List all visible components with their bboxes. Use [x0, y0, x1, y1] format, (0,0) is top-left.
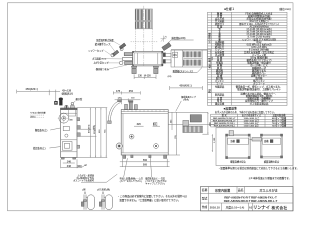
pipes body to flue — [163, 53, 171, 64]
pipe stubs below body (plan) — [131, 66, 158, 73]
plan labels left — [88, 38, 114, 71]
svg-text:浴室内設置: 浴室内設置 — [215, 187, 230, 192]
dim 220 flue — [209, 50, 211, 67]
exhaust direction marker — [161, 36, 167, 42]
clearance diagram right — [261, 134, 283, 158]
note with leader (install std) — [73, 173, 95, 182]
front legs — [123, 155, 167, 158]
svg-text:350: 350 — [129, 90, 134, 93]
svg-text:450(420□): 450(420□) — [25, 87, 37, 91]
bottom note — [118, 194, 188, 202]
side view body — [60, 108, 77, 158]
svg-text:(73): (73) — [175, 135, 177, 139]
body (plan view) — [133, 51, 164, 66]
side bottom dims — [61, 159, 82, 168]
svg-text:595: 595 — [143, 164, 148, 167]
svg-text:品名: 品名 — [238, 188, 244, 192]
front view body — [121, 110, 168, 155]
svg-text:(22): (22) — [168, 76, 172, 78]
side view top pipes — [54, 98, 75, 110]
svg-text:16.7 kW (14,400 kcal/h): 16.7 kW (14,400 kcal/h) — [246, 31, 271, 34]
svg-text:RBF-A80SN-RR-R(L): RBF-A80SN-RR-R(L) — [214, 124, 235, 127]
svg-text:0.05～0.5 MPa: 0.05～0.5 MPa — [251, 46, 267, 49]
spec table1 text — [214, 11, 282, 105]
svg-text:17.4 kW (15,000 kcal/h): 17.4 kW (15,000 kcal/h) — [246, 28, 271, 31]
svg-text:作成: 作成 — [202, 205, 208, 209]
drain hose curve — [108, 100, 122, 124]
flue duct hidden lines — [131, 29, 158, 51]
spec table1 frame — [208, 12, 288, 105]
right small vert dims — [168, 112, 180, 155]
svg-text:設置できません。「工事説明書」に従い取付けて下さい。: 設置できません。「工事説明書」に従い取付けて下さい。 — [120, 198, 181, 202]
table2 text — [213, 113, 287, 127]
top stubs — [125, 101, 138, 110]
svg-text:RBF-A80SN-RR-R-T RBF-A80SN-RR: RBF-A80SN-RR-R-T RBF-A80SN-RR-L-T — [224, 199, 278, 203]
svg-text:■仕様１: ■仕様１ — [224, 6, 235, 11]
wall sleeve vert dim — [202, 112, 208, 134]
svg-text:※1:本体背面より壁面までの距離です。: ※1:本体背面より壁面までの距離です。 — [249, 176, 291, 180]
svg-text:・この商品は必ず浴室内に設置して下さい。それ以外の場所へは: ・この商品は必ず浴室内に設置して下さい。それ以外の場所へは — [118, 194, 188, 198]
svg-text:2016.10: 2016.10 — [210, 205, 221, 209]
svg-text:名称: 名称 — [202, 188, 208, 192]
callout A — [120, 177, 143, 184]
label junkan cup — [180, 95, 196, 102]
flue terminal (plan) — [171, 50, 207, 67]
svg-text:17.4 kW (15,000 kcal/h): 17.4 kW (15,000 kcal/h) — [246, 33, 271, 36]
flue slant fitting — [162, 43, 171, 51]
page border — [8, 3, 294, 211]
svg-text:株式会社: 株式会社 — [272, 205, 288, 210]
svg-text:130: 130 — [138, 75, 143, 78]
svg-text:尺度(1:10～1:4): 尺度(1:10～1:4) — [226, 205, 245, 209]
center line — [143, 6, 145, 66]
callout B — [144, 177, 166, 186]
svg-text:・設置基準を超える場合は別売部品にて対応して下さるようお願い: ・設置基準を超える場合は別売部品にて対応して下さるようお願いします。 — [218, 166, 299, 170]
svg-text:248: 248 — [67, 165, 72, 168]
inner dims — [137, 123, 157, 126]
svg-text:(排気高さ): (排気高さ) — [62, 92, 73, 96]
svg-text:471(473): 471(473) — [88, 124, 91, 133]
svg-text:ガスふろがま: ガスふろがま — [259, 187, 278, 192]
small fitting top right — [154, 123, 157, 126]
side view burner circle — [59, 113, 69, 123]
svg-text:(単位:mm): (単位:mm) — [279, 7, 291, 11]
svg-text:560: 560 — [143, 159, 148, 162]
svg-text:■設置基準: ■設置基準 — [224, 106, 237, 111]
lower right circle — [154, 144, 159, 149]
front bottom dims — [120, 159, 170, 167]
svg-text:4-130: 4-130 — [145, 75, 152, 78]
svg-text:RBF-A80SN-FX-R(L)-T: RBF-A80SN-FX-R(L)-T — [213, 117, 236, 120]
vertical dims right of side view — [77, 108, 107, 158]
svg-text:320: 320 — [137, 123, 142, 126]
svg-text:146: 146 — [67, 160, 72, 163]
svg-text:175: 175 — [116, 90, 121, 93]
flue duct hatched (plan view) — [135, 9, 152, 29]
water/gas fittings (plan) — [111, 43, 133, 65]
side view legs — [61, 158, 75, 160]
svg-text:RBF-A80SN-FX-R(L): RBF-A80SN-FX-R(L) — [214, 122, 235, 125]
plan bottom dims — [138, 75, 151, 78]
remote dashed block — [30, 112, 44, 117]
wall sleeve detail — [168, 112, 215, 132]
side view inner parts — [62, 126, 80, 151]
svg-text:450(420□): 450(420□) — [179, 84, 191, 88]
svg-text:AC100V(50/60Hz): AC100V(50/60Hz) — [249, 25, 268, 28]
plan label leaders — [104, 40, 127, 69]
installation clearance box — [216, 128, 293, 166]
front top dims — [116, 90, 134, 93]
clearance diagram left — [226, 134, 251, 158]
gas cock knob — [116, 143, 122, 149]
table2 frame — [211, 114, 293, 127]
svg-text:RBF-A80SN-RR-R(L)-T: RBF-A80SN-RR-R(L)-T — [213, 119, 237, 122]
title block frame — [201, 187, 294, 211]
svg-text:1,100: 1,100 — [214, 137, 216, 143]
svg-text:(99): (99) — [77, 165, 82, 168]
svg-text:型式: 型式 — [202, 197, 208, 201]
pilot window circle — [129, 134, 134, 139]
